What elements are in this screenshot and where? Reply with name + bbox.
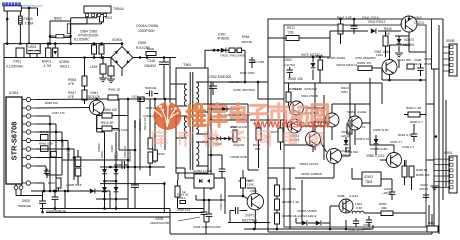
wire <box>229 211 231 223</box>
wire pin8 <box>36 157 62 159</box>
wire <box>64 191 66 209</box>
wire <box>45 166 47 175</box>
wire <box>71 23 87 25</box>
wire <box>409 51 426 53</box>
resistor R934 <box>256 128 261 140</box>
junction <box>19 42 22 45</box>
posistor B902 <box>50 21 71 37</box>
svg-text:C946 4.7: C946 4.7 <box>390 140 403 144</box>
svg-text:Y9081: Y9081 <box>346 110 355 114</box>
svg-text:660: 660 <box>255 147 260 151</box>
wire <box>31 131 36 133</box>
svg-text:7805: 7805 <box>365 180 373 184</box>
wire <box>97 128 102 130</box>
svg-text:C954 2560/650: C954 2560/650 <box>355 56 376 60</box>
wire <box>49 116 51 191</box>
diode VD96B <box>374 139 379 144</box>
wire <box>354 130 356 145</box>
capacitor C944 <box>391 179 393 192</box>
wire <box>276 178 278 185</box>
svg-text:IC961: IC961 <box>9 91 19 95</box>
wire <box>301 125 324 127</box>
wire <box>77 150 79 157</box>
wire <box>288 83 290 92</box>
wire <box>46 212 204 214</box>
wire <box>28 8 30 44</box>
svg-text:C930: C930 <box>424 57 432 61</box>
wire <box>244 50 246 82</box>
wire <box>369 135 371 145</box>
inductor L901 <box>138 97 144 102</box>
fuse FW03 <box>19 16 23 24</box>
wire <box>101 22 103 24</box>
svg-text:1000P/500: 1000P/500 <box>138 29 155 33</box>
wire bottom bus <box>31 190 97 192</box>
wire <box>349 83 351 120</box>
wire pin <box>196 103 208 105</box>
svg-text:DR1A: DR1A <box>178 196 186 200</box>
wire pin7 <box>36 148 74 150</box>
wire secondary 1 <box>208 81 268 83</box>
wire <box>398 46 400 52</box>
winding <box>28 50 33 51</box>
capacitor C908 <box>203 188 205 212</box>
wire <box>314 83 316 150</box>
wire <box>20 190 22 196</box>
svg-text:T950A: T950A <box>113 7 124 11</box>
wire <box>31 157 36 159</box>
capacitor C904 <box>92 45 97 54</box>
wire <box>322 222 330 224</box>
svg-text:LM9B N.15: LM9B N.15 <box>66 183 82 187</box>
resistor R940 <box>383 36 388 46</box>
wire <box>284 144 313 146</box>
wire <box>248 169 259 171</box>
wire <box>67 141 69 192</box>
svg-text:R940: R940 <box>384 27 392 31</box>
svg-text:YB961 A2C62: YB961 A2C62 <box>299 162 319 166</box>
wire <box>228 222 270 224</box>
wire AC neutral <box>4 57 111 59</box>
wire <box>19 19 23 21</box>
wire <box>350 103 370 105</box>
svg-text:L904: L904 <box>90 65 98 69</box>
wire <box>258 120 260 128</box>
wire <box>426 159 434 161</box>
IC IC903 7805 <box>362 172 381 186</box>
svg-text:2C962 A763B: 2C962 A763B <box>193 169 212 173</box>
junction <box>69 35 72 38</box>
svg-text:R913 5.3W: R913 5.3W <box>113 128 128 132</box>
wire AC phase <box>4 43 122 45</box>
resistor R951 <box>286 92 291 102</box>
wire <box>97 190 110 192</box>
wire <box>378 30 401 32</box>
diode VD961 <box>344 140 349 145</box>
wire <box>58 188 60 191</box>
wire <box>203 214 205 222</box>
diode VD918 <box>114 187 119 192</box>
wire <box>312 57 314 63</box>
wire <box>31 140 36 142</box>
wire <box>139 99 141 170</box>
capacitor C962 <box>212 82 214 86</box>
wire <box>411 177 413 190</box>
transistor V9651 <box>288 119 302 133</box>
wire <box>22 165 26 167</box>
diode D902 <box>146 52 156 56</box>
wire <box>354 104 356 116</box>
svg-text:470K/2KV: 470K/2KV <box>138 119 142 132</box>
svg-text:C959 W.R1: C959 W.R1 <box>373 128 389 132</box>
pin 1 connector IS902 <box>450 46 453 49</box>
wire <box>312 122 314 132</box>
wire <box>36 54 38 58</box>
transistor V906 <box>339 199 353 213</box>
wire <box>398 60 400 68</box>
svg-text:DR13 2W: DR13 2W <box>143 117 147 130</box>
svg-text:R972: R972 <box>287 26 295 30</box>
junction <box>64 190 67 193</box>
wire <box>224 178 226 214</box>
pin 3 connector IS902 <box>450 58 453 61</box>
pin 10 IC961 <box>22 182 26 184</box>
wire <box>61 132 63 175</box>
svg-text:VD96B A1B4: VD96B A1B4 <box>370 147 388 151</box>
wire <box>228 195 243 197</box>
capacitor C911 <box>122 161 124 169</box>
capacitor C951 <box>237 48 242 53</box>
wire <box>121 69 123 77</box>
pin 3 connector IS901 <box>450 169 453 172</box>
junction <box>95 98 98 101</box>
junction <box>28 42 31 45</box>
resistor R977 <box>278 128 283 142</box>
wire <box>431 68 439 70</box>
junction <box>408 18 411 21</box>
wire <box>284 82 350 84</box>
svg-text:470R/2KV: 470R/2KV <box>128 149 132 162</box>
wire <box>349 145 351 156</box>
junction <box>115 207 118 210</box>
svg-text:C1213: C1213 <box>375 154 385 158</box>
wire <box>89 98 108 100</box>
wire pin9 <box>36 165 46 167</box>
wire <box>210 82 212 190</box>
watermark small char 3 <box>204 131 219 146</box>
wire <box>110 58 112 67</box>
junction <box>49 35 52 38</box>
wire <box>163 184 165 213</box>
svg-text:R9612: R9612 <box>40 130 49 134</box>
junction <box>435 135 438 138</box>
wire <box>149 99 151 138</box>
winding <box>184 116 186 138</box>
primary winding T961 <box>184 84 186 106</box>
wire <box>54 199 56 208</box>
wire collector <box>96 99 98 100</box>
transistor V903 <box>401 16 417 32</box>
svg-text:A921L: A921L <box>100 149 104 158</box>
svg-text:R968 100: R968 100 <box>45 101 58 105</box>
svg-text:336/400: 336/400 <box>144 64 156 68</box>
resistor R90B <box>275 185 280 196</box>
svg-text:4T0B/2E: 4T0B/2E <box>217 37 229 41</box>
wire <box>254 210 256 229</box>
svg-text:C952 330E/500: C952 330E/500 <box>209 75 231 79</box>
junction <box>6 18 9 21</box>
wire <box>115 132 117 209</box>
wire <box>177 180 179 186</box>
wire <box>177 173 179 180</box>
resistor RP2B1 <box>275 199 280 210</box>
transistor V965 <box>387 153 402 168</box>
junction <box>257 81 260 84</box>
wire <box>431 214 433 234</box>
ground <box>107 79 115 83</box>
junction <box>134 166 137 169</box>
wire <box>268 167 295 169</box>
capacitor <box>44 171 50 173</box>
wire bus3 <box>442 19 444 200</box>
wire <box>401 23 402 25</box>
wire <box>96 129 98 133</box>
shield frame outer <box>268 19 443 232</box>
svg-text:IC903: IC903 <box>364 175 373 179</box>
svg-text:R955 4.7: R955 4.7 <box>410 120 423 124</box>
wire <box>331 127 333 140</box>
wire <box>381 178 392 180</box>
watermark small char 5 <box>257 131 270 145</box>
junction <box>319 56 322 59</box>
wire <box>342 155 351 157</box>
diode V9051 <box>221 48 226 53</box>
resistor R915 <box>75 157 81 167</box>
svg-text:R903 G.5K: R903 G.5K <box>398 133 413 137</box>
watermark char 5 <box>270 104 288 127</box>
transformer T961 <box>176 68 208 173</box>
wire <box>71 23 102 25</box>
capacitor C903 <box>108 66 114 76</box>
svg-text:R973 660: R973 660 <box>345 150 358 154</box>
capacitor C954b <box>251 57 253 60</box>
capacitor C917 <box>54 191 56 197</box>
svg-text:V942 F9012: V942 F9012 <box>368 20 386 24</box>
junction <box>121 42 124 45</box>
svg-text:R90B 56E: R90B 56E <box>282 187 296 191</box>
svg-text:C94B 0.61: C94B 0.61 <box>355 137 370 141</box>
wire <box>408 32 410 36</box>
svg-text:A102E: A102E <box>357 110 366 114</box>
diode VD954 <box>302 220 307 225</box>
svg-text:C967 473: C967 473 <box>52 111 65 115</box>
wire <box>254 188 256 193</box>
wire <box>205 222 207 234</box>
svg-text:/500E/2E: /500E/2E <box>18 204 31 208</box>
wire <box>36 137 41 140</box>
capacitor C949 <box>230 210 235 212</box>
wire <box>381 68 383 80</box>
junction <box>164 98 167 101</box>
wire <box>251 62 253 68</box>
wire <box>385 46 387 57</box>
svg-text:V9B8: V9B8 <box>366 154 374 158</box>
wire <box>247 104 249 170</box>
wire <box>393 145 395 152</box>
transistor Y962 <box>382 60 397 75</box>
svg-text:R912: R912 <box>158 152 165 156</box>
resistor R923 <box>56 35 64 38</box>
junction <box>53 190 56 193</box>
wire <box>214 177 225 179</box>
wire <box>212 88 214 95</box>
svg-text:R941 5.6E: R941 5.6E <box>337 16 352 20</box>
junction <box>244 81 247 84</box>
svg-text:C965: C965 <box>133 120 137 128</box>
svg-text:B901: B901 <box>428 221 435 225</box>
wire <box>434 181 450 183</box>
svg-text:IS901: IS901 <box>444 151 453 155</box>
wire <box>134 120 136 185</box>
svg-text:VD943 MZ21C1: VD943 MZ21C1 <box>336 63 358 67</box>
wire <box>22 131 26 133</box>
svg-text:R916: R916 <box>48 181 56 185</box>
wire <box>134 187 136 208</box>
component box <box>97 14 100 17</box>
wire <box>413 124 415 130</box>
junction <box>93 42 96 45</box>
capacitor <box>150 91 152 97</box>
watermark char 3 <box>231 104 246 122</box>
wire <box>355 223 357 227</box>
wire <box>289 168 291 229</box>
diode VD955 <box>316 220 321 225</box>
svg-text:www.dzsc.com: www.dzsc.com <box>23 3 43 7</box>
pin 1 connector IS901 <box>450 158 453 161</box>
resistor DR1A <box>180 201 186 204</box>
wire pin <box>176 137 187 139</box>
wire <box>31 115 36 117</box>
wire pin <box>196 141 208 143</box>
capacitor C968 <box>368 216 370 220</box>
wire <box>268 98 284 100</box>
wire <box>40 208 170 210</box>
ground <box>395 53 403 57</box>
resistor R910 <box>102 126 112 131</box>
resistor R941 <box>338 24 343 34</box>
diode VD916 <box>90 188 95 193</box>
junction <box>73 156 76 159</box>
junction <box>210 137 213 140</box>
capacitor C936 <box>413 130 415 134</box>
svg-text:C909 103: C909 103 <box>123 145 127 158</box>
junction <box>154 98 157 101</box>
junction <box>276 228 279 231</box>
wire <box>288 102 290 108</box>
wire <box>329 31 331 38</box>
inductor L904 <box>100 64 106 74</box>
junction <box>210 154 213 157</box>
junction <box>28 7 31 10</box>
junction <box>208 199 211 202</box>
pin 5 connector IS901 <box>450 180 453 183</box>
diode VD915 <box>102 187 107 192</box>
wire pin <box>196 133 208 135</box>
wire <box>375 135 377 139</box>
wire pin4 <box>36 123 56 125</box>
capacitor CM44 <box>425 192 427 195</box>
wire <box>243 196 248 199</box>
resistor R949 <box>241 178 246 188</box>
wire <box>77 176 79 185</box>
diode VD908 <box>53 48 58 58</box>
svg-text:RP2B1 1.1E: RP2B1 1.1E <box>282 200 299 204</box>
wire <box>268 177 277 179</box>
pin 1 connector T950A <box>86 13 88 16</box>
junction <box>54 42 57 45</box>
junction <box>388 79 391 82</box>
wire <box>330 30 368 32</box>
winding <box>352 211 364 213</box>
resistor R9612 <box>41 135 49 141</box>
optocoupler IC962 <box>194 174 214 188</box>
resistor R972 <box>286 36 299 41</box>
wire <box>47 44 49 48</box>
pin 12 IC961 <box>20 184 22 186</box>
capacitor <box>206 214 213 216</box>
capacitor <box>389 192 396 194</box>
junction <box>163 182 166 185</box>
svg-text:W/25: W/25 <box>424 62 432 66</box>
svg-text:0.1/250VAC: 0.1/250VAC <box>6 65 24 69</box>
pin 5 connector IS902 <box>450 70 453 73</box>
svg-text:Y962: Y962 <box>374 50 382 54</box>
wire <box>6 11 8 44</box>
wire <box>443 64 450 66</box>
watermark char 1 <box>187 104 206 126</box>
wire <box>64 35 71 37</box>
svg-text:V951: V951 <box>250 189 257 193</box>
capacitor C919 <box>146 93 149 95</box>
wire <box>370 144 394 146</box>
wire <box>247 187 255 189</box>
junction <box>67 190 70 193</box>
wire <box>331 104 333 113</box>
wire <box>93 44 95 45</box>
wire <box>369 78 371 104</box>
svg-text:39E: 39E <box>381 206 387 210</box>
wire <box>426 103 434 105</box>
wire <box>401 161 405 163</box>
wire bus4 <box>445 100 447 187</box>
junction <box>323 125 326 128</box>
capacitor C916 <box>42 191 44 201</box>
wire <box>408 36 410 52</box>
wire <box>196 199 225 201</box>
junction <box>212 137 215 140</box>
wire <box>19 24 21 43</box>
svg-text:2.2/75Q: 2.2/75Q <box>284 63 296 67</box>
junction <box>127 98 130 101</box>
capacitor C905 <box>99 45 104 54</box>
junction <box>47 42 50 45</box>
junction <box>312 56 315 59</box>
svg-text:Y9612: Y9612 <box>293 87 302 91</box>
capacitor <box>353 221 359 223</box>
svg-text:R977: R977 <box>271 130 279 134</box>
junction <box>115 166 118 169</box>
diode VD922 <box>228 136 232 140</box>
